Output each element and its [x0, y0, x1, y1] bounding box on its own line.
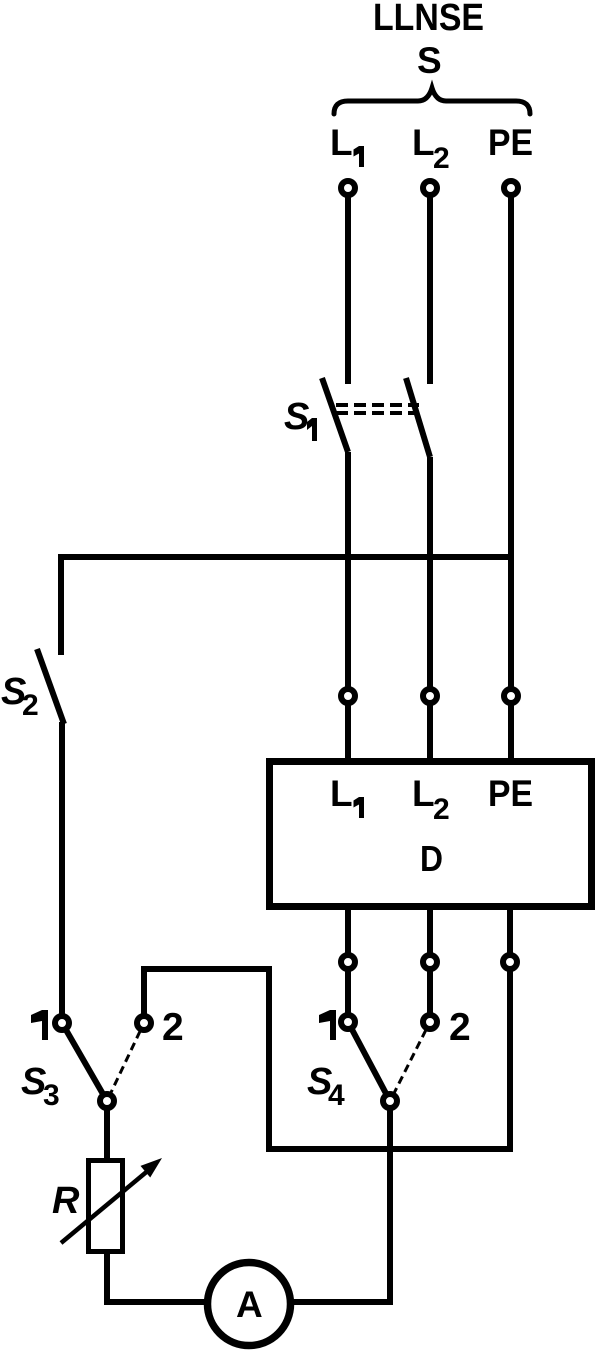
svg-text:L: L	[412, 773, 435, 814]
svg-text:2: 2	[162, 1006, 184, 1049]
wire L2 upper	[427, 188, 433, 384]
wire S3 common through R	[107, 1109, 250, 1302]
switch S1 blade pole L1	[322, 378, 348, 452]
terminal L2 above D	[423, 689, 437, 703]
svg-text:D: D	[420, 838, 443, 879]
wire PE vertical	[508, 188, 514, 761]
svg-text:2: 2	[22, 689, 39, 722]
label L2 top	[412, 122, 450, 175]
label S2	[1, 671, 39, 722]
svg-text:2: 2	[449, 1006, 471, 1049]
wire L2 mid	[427, 457, 433, 761]
S4 contact 2	[423, 1015, 437, 1029]
resistor R body	[89, 1161, 123, 1252]
label L2 in D	[412, 773, 450, 826]
box D	[270, 762, 592, 907]
svg-text:R: R	[52, 1180, 80, 1222]
switch S3 blade	[67, 1031, 103, 1093]
svg-text:PE: PE	[488, 773, 533, 814]
terminal L1 below D	[341, 955, 355, 969]
terminal PE below D	[503, 955, 517, 969]
terminal L2 below D	[423, 955, 437, 969]
label S1	[284, 396, 317, 441]
terminal L2	[423, 181, 437, 195]
ammeter A	[208, 1263, 291, 1346]
wire S3 contact2 loop to PE	[144, 969, 513, 1149]
svg-text:4: 4	[328, 1079, 345, 1112]
S4 contact 1	[341, 1015, 355, 1029]
switch S2 blade	[37, 649, 64, 724]
wire S4 common stub	[387, 1109, 393, 1128]
S4 common	[383, 1094, 397, 1108]
svg-text:2: 2	[433, 142, 450, 175]
wire L2 below D	[427, 908, 433, 1022]
label 1 of S4	[319, 1010, 336, 1040]
switch S4 blade	[352, 1030, 386, 1093]
wire PE below D	[507, 908, 513, 1152]
switch S1 blade pole L2	[406, 378, 430, 457]
brace	[334, 88, 530, 114]
S1 linkage dashes	[336, 405, 419, 413]
svg-text:2: 2	[433, 793, 450, 826]
switch S3 dashed throw	[111, 1031, 140, 1093]
S3 contact 2	[137, 1016, 151, 1030]
terminal L1	[341, 181, 355, 195]
label L1 in D	[330, 773, 364, 818]
svg-text:L: L	[330, 122, 353, 163]
svg-text:LLNSE: LLNSE	[373, 0, 484, 39]
terminal L1 above D	[341, 689, 355, 703]
wire horizontal bus to S2	[61, 557, 511, 655]
wire L1 mid	[345, 452, 351, 761]
svg-text:S: S	[284, 396, 309, 438]
label S4	[307, 1061, 345, 1112]
terminal PE above D	[504, 689, 518, 703]
wire L1 upper	[345, 188, 351, 384]
label S3	[21, 1061, 60, 1112]
wire L1 below D	[345, 908, 351, 1022]
svg-text:S: S	[417, 40, 442, 81]
svg-text:A: A	[236, 1284, 263, 1325]
S3 common	[100, 1094, 114, 1108]
wire S2 to S3	[59, 722, 65, 1023]
S3 contact 1	[55, 1016, 69, 1030]
resistor R arrow	[61, 1169, 150, 1243]
svg-text:PE: PE	[488, 122, 533, 163]
switch S4 dashed throw	[394, 1030, 426, 1093]
svg-text:L: L	[412, 122, 435, 163]
terminal PE	[504, 181, 518, 195]
svg-text:3: 3	[43, 1079, 60, 1112]
label L1 top	[330, 122, 364, 167]
label 1 of S3	[31, 1010, 48, 1040]
wire ammeter to S4	[249, 1111, 390, 1302]
svg-text:L: L	[330, 773, 353, 814]
